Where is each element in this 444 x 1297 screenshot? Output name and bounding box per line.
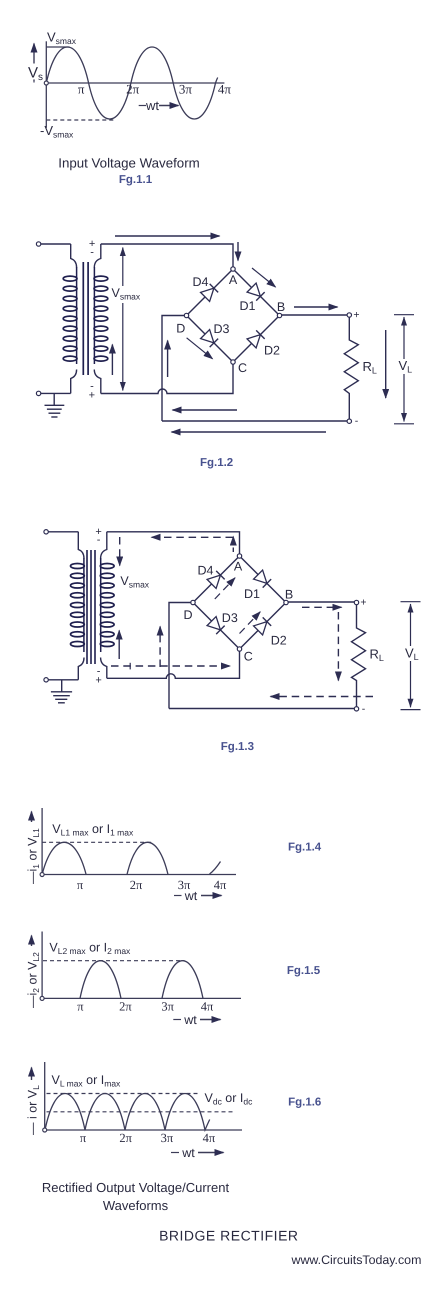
wire top-left [41,243,71,245]
svg-text:-: - [362,703,366,715]
svg-text:—i2 or VL2: —i2 or VL2 [26,952,42,1008]
waveform Fig1.6 rectified output [26,1062,322,1160]
node C [237,647,241,651]
wire D-C [193,603,240,650]
svg-text:2π: 2π [130,878,143,892]
wt label [174,895,182,897]
svg-text:VL1 max or I1 max: VL1 max or I1 max [52,822,134,838]
svg-text:3π: 3π [161,1131,174,1145]
current humps Fig1.4 [42,842,86,874]
svg-text:— i or VL: — i or VL [26,1085,42,1135]
svg-text:Vsmax: Vsmax [120,574,149,590]
-Vsmax dashed level line [46,119,114,121]
axis horizontal wt Fig1.1 [46,82,224,84]
axis vertical Fig1.1 [45,41,47,128]
wt label [171,1152,179,1154]
svg-text:Input Voltage Waveform: Input Voltage Waveform [58,156,199,171]
svg-text:+: + [89,390,95,402]
wt axis label [139,105,146,107]
terminal input top [44,530,48,534]
transformer T1 secondary winding [94,244,101,268]
sine curve Vs [46,47,217,119]
waveform Fig1.4 diode pair 1 current [26,808,322,903]
current arrow up left of bridge [167,341,169,378]
resistor RL [352,605,366,707]
dashed current arrow toward load [302,606,342,608]
svg-text:RL: RL [370,647,384,664]
svg-text:Fg.1.1: Fg.1.1 [119,174,153,186]
svg-text:A: A [229,273,238,287]
svg-text:D3: D3 [214,322,230,336]
Vsmax measure arrow [122,248,124,391]
dashed current arrow toward C [111,665,230,667]
svg-text:VL max or Imax: VL max or Imax [52,1073,122,1089]
wire C-B [233,316,280,363]
waveform Fig1.1 input voltage [27,30,232,187]
current arrow bottom long left [172,431,327,433]
diode D4 [201,284,219,302]
origin node [43,1128,47,1132]
VL measure cap top [401,601,421,603]
svg-text:+: + [360,597,366,609]
rectified humps Fig1.6 [45,1093,210,1130]
svg-text:π: π [77,878,84,892]
wire A-B [233,269,280,316]
diode D4 [207,571,225,589]
current arrow toward load [294,306,338,308]
dashed current arrow D to A [215,578,235,599]
svg-text:Waveforms: Waveforms [103,1198,169,1213]
svg-text:3π: 3π [161,1000,174,1014]
svg-text:VL2 max or I2 max: VL2 max or I2 max [49,941,131,957]
current humps Fig1.5 [80,961,121,999]
Vs arrow lower dash [33,80,35,83]
VL measure cap bottom [401,709,421,711]
svg-text:Fg.1.4: Fg.1.4 [288,842,322,854]
svg-text:wt: wt [181,1146,195,1160]
current arrow secondary up [111,345,113,376]
svg-text:+: + [353,309,359,321]
svg-text:Fg.1.3: Fg.1.3 [221,741,254,753]
svg-text:π: π [77,1000,84,1014]
svg-text:Vsmax: Vsmax [47,30,77,47]
wire secondary bottom to node C [101,364,233,394]
svg-text:Vdc or Idc: Vdc or Idc [205,1091,254,1107]
axis vertical Fig1.6 [44,1062,46,1130]
circuit Fig1.2 positive half cycle [36,236,414,469]
terminal input bottom [36,391,40,395]
wire top-left [48,531,78,533]
junction tick [129,663,131,670]
wire D-C [187,316,234,363]
current arrow down into A [237,242,239,261]
svg-text:-Vsmax: -Vsmax [40,123,74,140]
axis horizontal Fig1.6 [45,1129,242,1131]
svg-text:BRIDGE RECTIFIER: BRIDGE RECTIFIER [159,1228,298,1244]
diode D3 [207,617,225,635]
diode D3 [201,330,219,348]
axis horizontal Fig1.4 [42,874,236,876]
partial hump at 4pi [210,862,221,875]
svg-text:Fg.1.6: Fg.1.6 [288,1097,321,1109]
dashed current arrow down near secondary top [119,537,121,566]
svg-text:-: - [90,247,94,259]
svg-text:B: B [285,588,293,602]
ground [53,393,55,405]
wire bottom-left [48,679,78,681]
wire C-B [240,603,287,650]
svg-text:D: D [176,322,185,336]
svg-text:D1: D1 [244,587,260,601]
svg-text:π: π [80,1131,87,1145]
svg-text:D2: D2 [264,344,280,358]
current arrow D to C [187,338,213,359]
svg-text:D1: D1 [240,299,256,313]
wire D-A [187,269,234,316]
diode D1 [254,570,272,588]
axis horizontal Fig1.5 [42,997,241,999]
origin node [40,873,44,877]
bottom rail wire [162,420,347,422]
svg-text:2π: 2π [119,1000,132,1014]
circuit Fig1.3 negative half cycle [44,526,421,753]
svg-text:D4: D4 [198,564,214,578]
svg-text:2π: 2π [126,82,140,97]
diode D2 [254,617,272,635]
transformer core [86,550,88,664]
svg-text:wt: wt [183,1013,197,1027]
node B [277,313,281,317]
resistor RL [344,317,358,419]
wire secondary top to node A [101,244,233,267]
transformer T2 primary winding [78,532,84,559]
wire A-B [240,556,287,603]
origin node [40,996,44,1000]
svg-text:C: C [244,650,253,664]
svg-text:2π: 2π [119,1131,132,1145]
current arrow A to B [252,268,276,287]
node A [231,267,235,271]
svg-text:D: D [183,608,192,622]
terminal input top [36,242,40,246]
terminal load - [347,419,351,423]
svg-text:A: A [234,560,243,574]
current arrow secondary up solid [118,631,120,660]
terminal load - [354,707,358,711]
y axis label arrow [31,936,33,947]
dashed current arrow up left of bridge [159,627,161,668]
diode D1 [247,283,265,301]
svg-text:D4: D4 [193,275,209,289]
dashed current arrow down through load [337,612,339,681]
svg-text:www.CircuitsToday.com: www.CircuitsToday.com [291,1253,422,1267]
svg-text:-: - [97,534,101,546]
dashed max level Fig1.4 [42,841,154,843]
load current arrow down [385,330,387,398]
node D [191,600,195,604]
svg-text:B: B [277,300,285,314]
node C [231,360,235,364]
svg-text:4π: 4π [201,1000,214,1014]
current arrow top right [115,235,220,237]
svg-text:Fg.1.5: Fg.1.5 [287,965,321,977]
current arrow bottom short left [173,409,238,411]
wire B to load [288,601,354,603]
VL measure arrow [403,317,405,422]
VL measure arrow [410,604,412,707]
y axis label arrow [31,1068,33,1081]
svg-text:4π: 4π [218,82,232,97]
wt label [173,1019,181,1021]
svg-text:-: - [355,415,359,427]
origin node [44,81,48,85]
axis vertical Fig1.4 [41,808,43,875]
node D [184,313,188,317]
axis vertical Fig1.5 [41,932,43,999]
svg-text:D2: D2 [271,634,287,648]
terminal input bottom [44,678,48,682]
svg-text:π: π [78,82,85,97]
svg-text:+: + [95,675,101,687]
waveform Fig1.5 diode pair 2 current [26,932,321,1028]
dashed max level Fig1.5 [43,960,185,962]
y axis label arrow [31,812,33,823]
wire node D to bottom rail [169,603,193,709]
dashed current arrow bottom left [271,696,374,698]
dashed Vdc level Fig1.6 [47,1111,236,1113]
wire secondary bottom to node C [107,651,240,678]
wire bottom-left [41,392,71,394]
transformer T2 secondary winding [101,532,107,559]
svg-text:Fg.1.2: Fg.1.2 [200,457,233,469]
dashed current arrow C to B [240,612,261,634]
svg-text:D3: D3 [222,611,238,625]
svg-text:—i1 or VL1: —i1 or VL1 [26,828,42,884]
dashed current arrow up at A [232,537,234,553]
wire D-A [193,556,240,603]
transformer core [82,262,84,375]
terminal load + [354,600,358,604]
Vs axis arrow [33,44,35,81]
VL measure cap bottom [394,423,414,425]
terminal load + [347,313,351,317]
node B [284,600,288,604]
diode D2 [247,330,265,348]
wire secondary top to node A [107,532,240,554]
Vsmax level line [46,46,69,48]
dashed max level Fig1.6 [47,1093,199,1095]
svg-text:4π: 4π [214,878,227,892]
svg-text:wt: wt [184,889,198,903]
svg-text:wt: wt [145,98,159,113]
svg-text:4π: 4π [203,1131,216,1145]
svg-text:C: C [238,361,247,375]
svg-text:3π: 3π [179,82,193,97]
VL measure cap top [394,314,414,316]
dashed current arrow top left [152,536,234,538]
ground [61,680,63,692]
transformer T1 primary winding [71,244,77,268]
wire B to load [282,314,348,316]
svg-text:Rectified Output Voltage/Curre: Rectified Output Voltage/Current [42,1180,230,1195]
node A [237,554,241,558]
bottom rail wire [169,708,354,710]
svg-text:RL: RL [363,359,377,376]
wire node D to bottom rail [162,316,187,422]
